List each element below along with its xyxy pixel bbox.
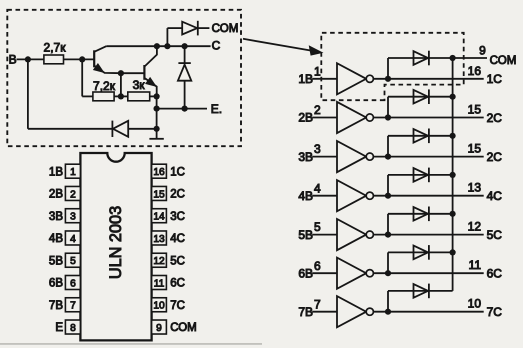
svg-text:6В: 6В: [49, 278, 63, 290]
svg-text:12: 12: [153, 256, 165, 267]
svg-text:9: 9: [479, 43, 486, 57]
svg-text:СОМ: СОМ: [170, 322, 197, 334]
svg-text:11: 11: [154, 278, 165, 289]
svg-text:7: 7: [70, 301, 76, 312]
svg-text:5С: 5С: [170, 255, 185, 267]
svg-text:15: 15: [468, 142, 482, 156]
svg-text:4В: 4В: [49, 233, 63, 245]
svg-text:СОМ: СОМ: [212, 22, 239, 35]
svg-text:1: 1: [314, 64, 321, 78]
svg-text:6В: 6В: [298, 266, 313, 280]
svg-text:Е.: Е.: [211, 102, 222, 116]
svg-text:2С: 2С: [487, 111, 503, 125]
svg-text:5В: 5В: [49, 255, 63, 267]
svg-text:9: 9: [156, 323, 162, 334]
svg-text:7С: 7С: [487, 305, 503, 319]
svg-text:3к: 3к: [133, 78, 146, 92]
svg-text:3: 3: [314, 142, 321, 156]
svg-text:10: 10: [468, 297, 482, 311]
svg-text:15: 15: [468, 103, 482, 117]
svg-text:16: 16: [468, 64, 482, 78]
svg-text:2: 2: [314, 103, 321, 117]
svg-text:6С: 6С: [170, 278, 185, 290]
svg-text:2С: 2С: [170, 189, 185, 201]
svg-text:12: 12: [468, 220, 482, 234]
svg-text:3В: 3В: [49, 211, 63, 223]
svg-text:7,2к: 7,2к: [93, 79, 116, 93]
svg-text:5: 5: [70, 256, 76, 267]
svg-text:В: В: [9, 53, 17, 67]
svg-text:1В: 1В: [49, 166, 63, 178]
svg-text:4С: 4С: [487, 189, 503, 203]
svg-text:7: 7: [314, 297, 321, 311]
svg-text:5С: 5С: [487, 228, 503, 242]
svg-text:13: 13: [153, 234, 165, 245]
svg-text:16: 16: [153, 167, 165, 178]
svg-text:ULN 2003: ULN 2003: [107, 206, 125, 279]
svg-text:2,7к: 2,7к: [44, 41, 67, 55]
svg-text:7В: 7В: [49, 300, 63, 312]
svg-text:2В: 2В: [49, 189, 63, 201]
svg-text:6: 6: [314, 259, 321, 273]
svg-text:13: 13: [468, 181, 482, 195]
svg-text:7В: 7В: [298, 305, 313, 319]
svg-text:4С: 4С: [170, 233, 185, 245]
svg-text:2С: 2С: [487, 150, 503, 164]
svg-text:1С: 1С: [487, 72, 503, 86]
svg-text:10: 10: [153, 301, 165, 312]
svg-text:3: 3: [70, 212, 76, 223]
svg-text:2: 2: [70, 189, 76, 200]
svg-text:1: 1: [70, 167, 76, 178]
svg-text:С: С: [212, 39, 221, 53]
svg-text:5В: 5В: [298, 228, 313, 242]
svg-text:5: 5: [314, 220, 321, 234]
svg-text:15: 15: [153, 189, 165, 200]
svg-text:4: 4: [314, 181, 321, 195]
svg-text:14: 14: [153, 212, 165, 223]
svg-text:3С: 3С: [170, 211, 185, 223]
svg-text:1В: 1В: [298, 72, 313, 86]
svg-text:1С: 1С: [170, 166, 185, 178]
svg-text:Е: Е: [55, 322, 63, 334]
svg-text:4: 4: [70, 234, 76, 245]
svg-text:2В: 2В: [298, 111, 313, 125]
svg-text:3В: 3В: [298, 150, 313, 164]
svg-text:7С: 7С: [170, 300, 185, 312]
svg-text:11: 11: [469, 258, 482, 272]
svg-text:4В: 4В: [298, 189, 313, 203]
svg-text:СОМ: СОМ: [490, 54, 517, 67]
svg-text:6: 6: [70, 278, 76, 289]
svg-text:8: 8: [70, 323, 76, 334]
svg-text:6С: 6С: [487, 267, 503, 281]
